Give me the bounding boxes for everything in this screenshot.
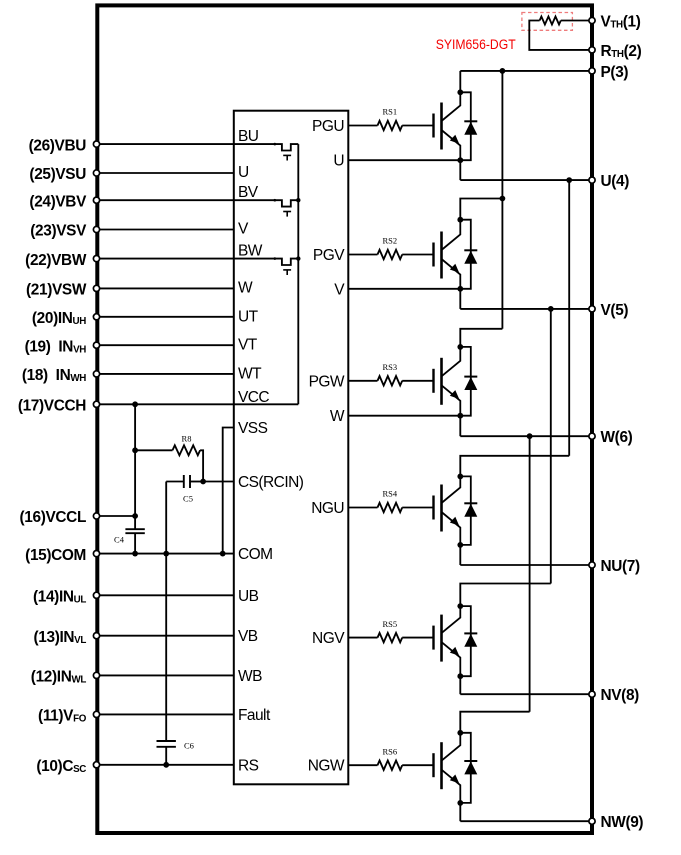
node Q5 (V low) emitter [457,673,463,679]
svg-text:PGW: PGW [309,373,345,390]
pin (18) label and terminal [22,367,100,384]
resistor RS1 [378,107,403,131]
svg-text:BW: BW [238,243,263,260]
svg-text:COM: COM [238,546,273,563]
junction Q2 collector feed [500,196,506,202]
svg-text:NU(7): NU(7) [601,558,641,575]
IGBT Q1 (U high) [434,92,461,160]
svg-text:BU: BU [238,128,258,145]
svg-text:NGU: NGU [311,500,344,517]
junction C5/C6 on COM [163,551,169,557]
thermistor RT1 [540,17,561,25]
wire Q2 emitter down [459,289,461,309]
svg-text:WB: WB [238,668,262,685]
pin NU(7) [589,558,640,575]
node Q5 (V low) collector [457,603,463,609]
svg-text:SYIM656-DGT: SYIM656-DGT [436,37,516,52]
freewheel diode D3 [460,347,477,416]
svg-text:NV(8): NV(8) [601,687,640,704]
pin (11) label and terminal [38,708,100,725]
wire pin (18) to U1 [100,373,234,375]
freewheel diode D4 [460,476,477,545]
svg-text:(23)VSV: (23)VSV [30,223,87,240]
svg-text:RS4: RS4 [383,489,398,499]
svg-text:R8: R8 [182,434,192,444]
IGBT Q5 (V low) [434,606,461,676]
junction R8 tap [132,447,138,453]
svg-text:RS1: RS1 [383,107,398,117]
pin NW(9) [589,814,644,831]
svg-text:RS: RS [238,757,259,774]
pin VTH(1) [589,14,641,31]
junction VCCL [132,513,138,519]
wire pin (11) to U1 [100,713,234,715]
svg-text:NW(9): NW(9) [601,814,644,831]
IGBT Q6 (W low) [434,733,461,803]
svg-text:W: W [330,408,345,425]
svg-text:C4: C4 [114,535,125,545]
svg-text:NGW: NGW [308,758,345,775]
pin (17) label and terminal [18,398,100,415]
module package outline [97,5,592,833]
resistor RS6 [378,746,403,770]
VCC bootstrap rail [297,144,299,404]
P(3) rail [460,70,592,72]
bootstrap switch BS1 [234,143,298,161]
junction C6/CSC [163,762,169,768]
wire Q6 collector elbow [460,712,529,733]
node Q2 (V high) emitter [457,286,463,292]
wire CSC pin (10) to U1 RS [100,764,234,766]
freewheel diode D5 [460,606,477,676]
pin (25) label and terminal [29,166,99,183]
resistor RS3 [378,362,403,385]
IGBT Q2 (V high) [434,220,461,289]
resistor RS4 [378,489,403,513]
wire Q3 emitter down [459,416,461,437]
wire pin (12) to U1 [100,674,234,676]
W(6) rail [460,435,592,437]
pin (21) label and terminal [26,282,100,299]
wire Q1 emitter down [459,160,461,180]
wire gate RS3 lead [348,380,377,382]
wire C5 to COM [165,482,167,554]
bootstrap switch BS2 [234,199,298,217]
svg-text:NGV: NGV [312,630,345,647]
wire VCCH pin (17) to VCC rail [100,403,299,405]
node Q6 (W low) collector [457,730,463,736]
wire VCCL pin (16) stub [100,515,136,517]
svg-text:W: W [238,279,253,296]
wire gate RS4 lead [348,507,377,509]
wire COM branch to C6 [165,554,167,741]
junction V rail / NV feed [548,306,554,312]
wire P feed vertical [501,71,503,329]
pin U(4) [589,173,629,190]
svg-text:Fault: Fault [238,707,271,724]
node Q2 (V high) collector [457,217,463,223]
pin RTH(2) [589,43,642,60]
wire CS(RCIN) to U1 [203,481,234,483]
wire VCC vertical branch x=135 [134,404,136,529]
IGBT Q3 (W high) [434,347,461,416]
svg-text:C6: C6 [184,741,194,751]
thermistor dashed outline [522,13,573,31]
pin (10) label and terminal [36,758,99,775]
resistor R8 [135,434,203,482]
IGBT Q4 (U low) [434,476,461,545]
wire W to Q6 collector vertical [529,436,531,712]
wire gate RS1 lead [348,125,377,127]
resistor RS5 [378,619,403,643]
svg-text:VB: VB [238,628,258,645]
capacitor C6 [157,741,194,765]
svg-text:V: V [238,221,249,238]
wire RS5 to gate [402,637,433,639]
wire V to Q5 collector vertical [550,309,552,584]
wire gate RS6 lead [348,764,377,766]
svg-text:V(5): V(5) [601,302,629,319]
wire U1 W-pin to Q3 emitter [348,415,460,417]
pin (12) label and terminal [31,669,100,686]
wire pin (23) to U1 [100,229,234,231]
freewheel diode D6 [460,733,477,803]
capacitor C5 [166,475,203,504]
wire Q4 emitter down [459,545,461,565]
wire Q1 collector to P rail [459,71,461,92]
svg-text:(26)VBU: (26)VBU [29,137,87,154]
bootstrap switch BS3 [234,257,298,275]
svg-text:V: V [334,281,345,298]
wire COM pin (15) to U1 [100,553,234,555]
wire RS1 to gate [402,125,433,127]
wire gate RS5 lead [348,637,377,639]
pin (19) label and terminal [25,338,100,355]
node Q1 (U high) collector [457,89,463,95]
wire pin (14) to U1 [100,594,234,596]
wire pin (22) to U1 [100,258,234,260]
junction W rail / NW feed [527,433,533,439]
svg-text:RS6: RS6 [383,746,398,756]
wire pin (21) to U1 [100,287,234,289]
svg-text:VSS: VSS [238,420,268,437]
wire Q3 collector elbow [460,329,502,347]
pin (16) label and terminal [20,509,100,526]
pin (20) label and terminal [32,310,100,327]
wire VSS to COM [223,428,234,554]
node Q4 (U low) collector [457,474,463,480]
freewheel diode D2 [460,220,477,289]
wire Q5 emitter down [459,676,461,694]
pin (26) label and terminal [29,137,100,154]
svg-text:PGV: PGV [313,247,345,264]
wire pin (13) to U1 [100,635,234,637]
svg-text:(17)VCCH: (17)VCCH [18,398,86,415]
wire pin (24) to U1 [100,199,234,201]
NW(9) rail [460,820,592,822]
wire VTH(1) to thermistor [561,20,592,22]
junction VCCH/C4 branch [132,401,138,407]
wire U1 U-pin to Q1 emitter [348,159,460,161]
pin NV(8) [589,687,639,704]
svg-text:(21)VSW: (21)VSW [26,282,87,299]
capacitor C4 [114,529,145,553]
wire pin (20) to U1 [100,316,234,318]
pin W(6) [589,429,633,446]
wire gate RS2 lead [348,254,377,256]
node Q3 (W high) emitter [457,413,463,419]
svg-text:C5: C5 [183,494,193,504]
svg-text:VCC: VCC [238,389,269,406]
node Q1 (U high) emitter [457,157,463,163]
node Q6 (W low) emitter [457,800,463,806]
freewheel diode D1 [460,92,477,160]
svg-text:WT: WT [238,365,262,382]
junction P rail feed [500,68,506,74]
wire RS6 to gate [402,764,433,766]
wire U1 V-pin to Q2 emitter [348,288,460,290]
pin V(5) [589,302,629,319]
wire Q5 collector elbow [460,584,551,607]
wire RS2 to gate [402,254,433,256]
junction BW row / VCC rail [296,256,300,260]
svg-text:RS2: RS2 [383,236,398,246]
svg-text:(15)COM: (15)COM [25,547,86,564]
node Q4 (U low) emitter [457,542,463,548]
svg-text:PGU: PGU [312,118,344,135]
svg-text:CS(RCIN): CS(RCIN) [238,474,304,491]
resistor RS2 [378,236,403,260]
wire pin (26) to U1 [100,143,234,145]
NU(7) rail [460,564,592,566]
wire U to Q4 collector vertical [568,180,570,456]
svg-text:U: U [333,153,344,170]
wire Q4 collector elbow [460,456,569,477]
svg-text:(22)VBW: (22)VBW [25,252,87,269]
pin (13) label and terminal [34,629,100,646]
wire Q2 collector elbow [460,199,502,220]
pin (23) label and terminal [30,223,99,240]
svg-text:RS3: RS3 [383,362,398,372]
svg-text:RS5: RS5 [383,619,398,629]
svg-text:VT: VT [238,337,258,354]
wire pin (25) to U1 [100,172,234,174]
wire RS4 to gate [402,507,433,509]
wire RS3 to gate [402,380,433,382]
junction BV row / VCC rail [296,198,300,202]
svg-text:U: U [238,164,249,181]
pin (15) label and terminal [25,547,99,564]
svg-text:BV: BV [238,184,259,201]
svg-text:P(3): P(3) [601,64,629,81]
node Q3 (W high) collector [457,344,463,350]
wire Q6 emitter down [459,803,461,821]
gate driver IC U1 [234,111,348,785]
wire pin (19) to U1 [100,344,234,346]
NV(8) rail [460,693,592,695]
wire thermistor to RTH(2) [529,21,592,50]
V(5) rail [460,308,592,310]
junction U rail / NU feed [566,177,572,183]
pin (14) label and terminal [33,589,100,606]
junction R8/C5/CS node [200,479,206,485]
svg-text:(24)VBV: (24)VBV [29,193,87,210]
junction C4/COM [132,551,138,557]
svg-text:(16)VCCL: (16)VCCL [20,509,86,526]
junction VSS/COM [220,551,226,557]
svg-text:W(6): W(6) [601,429,633,446]
svg-text:UT: UT [238,308,259,325]
U(4) rail [460,179,592,181]
svg-text:UB: UB [238,588,259,605]
pin P(3) [589,64,629,81]
pin (24) label and terminal [29,193,99,210]
pin (22) label and terminal [25,252,99,269]
svg-text:(25)VSU: (25)VSU [29,166,86,183]
svg-text:U(4): U(4) [601,173,630,190]
